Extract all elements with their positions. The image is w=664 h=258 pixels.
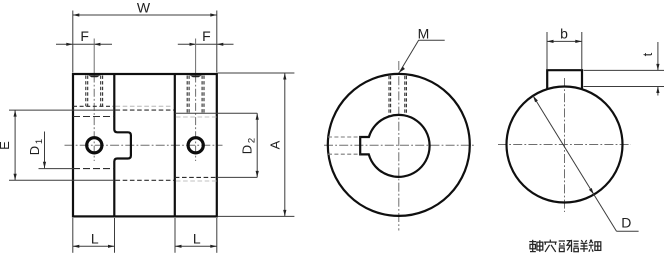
clamp screw hole hidden lines front view (389, 76, 406, 116)
slit between centre body and right hub (174, 74, 176, 216)
screw centre line left hub (vertical) (93, 39, 95, 75)
screw centre line right hub (vertical) (195, 39, 197, 75)
svg-text:D: D (27, 146, 42, 155)
svg-text:L: L (193, 231, 201, 247)
dimension A line (283, 73, 286, 216)
dimension t line with outside arrows (656, 42, 659, 96)
shaft hole circle (507, 87, 623, 203)
leader line M (399, 40, 445, 72)
E upper line through hub (9, 109, 114, 111)
E lower line through hub (9, 179, 114, 181)
kanji 穴 (544, 240, 557, 252)
right hub bore faint hidden line upper (176, 116, 217, 118)
svg-text:t: t (640, 52, 655, 56)
left hub counterbore hidden line upper (73, 105, 114, 107)
vertical centre line detail view (564, 78, 566, 212)
dimension A extension line top (218, 72, 295, 74)
dimension W line (73, 13, 217, 16)
right clamp screw head circle (188, 138, 203, 153)
centre body counterbore faint hidden line (116, 105, 175, 107)
dimension b extension lines (546, 32, 548, 69)
dimension F left line (56, 43, 112, 46)
svg-text:W: W (137, 0, 151, 16)
dimension E line (14, 110, 17, 180)
svg-text:1: 1 (34, 139, 45, 144)
dimension L right line (175, 245, 217, 248)
svg-text:D: D (621, 214, 631, 230)
svg-text:D: D (240, 145, 255, 154)
D2 lower line through right hub (175, 176, 217, 178)
svg-text:A: A (268, 140, 283, 149)
dimension L left line (73, 245, 115, 248)
D2 upper line through right hub (175, 112, 257, 114)
svg-text:b: b (560, 26, 568, 42)
kanji 軸 (529, 240, 543, 252)
outer diameter circle (328, 74, 470, 216)
left clamp screw head circle (87, 138, 102, 153)
dimension D diagonal line (533, 96, 639, 231)
kanji 細 (589, 240, 601, 252)
dimension L extension lines (73, 218, 217, 253)
bore circle with clamp slit notch (360, 115, 429, 177)
right hub screw hole chamfer (190, 75, 202, 77)
centre body hidden line upper (116, 109, 175, 111)
left hub bore hidden line lower (D1) (73, 168, 114, 170)
vertical centre line front view (398, 61, 400, 231)
svg-text:F: F (80, 28, 89, 44)
right hub clamp screw hole hidden lines (187, 76, 204, 114)
left hub clamp screw hole hidden lines (86, 76, 103, 107)
horizontal centre line of left view (65, 144, 223, 146)
dimension W extension line right (216, 11, 218, 73)
keyway bump (547, 70, 582, 89)
svg-text:M: M (418, 26, 430, 42)
centre body hidden line lower (116, 179, 175, 181)
dimension D1 line (43, 132, 46, 169)
horizontal centre line front view (324, 144, 474, 146)
horizontal centre line detail view (498, 144, 631, 146)
caption 軸穴部詳細 (shaft hole detail) drawn as strokes (529, 240, 601, 252)
dimension b line (547, 40, 582, 43)
svg-text:F: F (202, 28, 211, 44)
kanji 詳 (573, 240, 588, 252)
svg-text:L: L (91, 231, 99, 247)
left hub bore hidden line upper (73, 116, 114, 118)
right hub bore faint hidden line lower (176, 180, 217, 182)
slit between left hub and centre body with jaw tab (114, 74, 131, 216)
slit hidden lines to outer diameter (328, 136, 360, 138)
dimension D2 label (rotated) (240, 138, 258, 154)
svg-text:E: E (0, 141, 12, 150)
dimension t extension line top (584, 69, 664, 71)
dimension W extension line left (72, 11, 74, 73)
left hub screw hole chamfer (88, 75, 100, 77)
D1 extension line outside part (39, 168, 74, 170)
dimension A extension line bottom (218, 215, 295, 217)
coupling body outline (73, 74, 217, 216)
dimension D2 line (256, 113, 259, 177)
svg-text:2: 2 (247, 138, 258, 143)
dimension t extension line bottom (584, 86, 664, 88)
dimension F right line (178, 43, 234, 46)
dimension D1 label (rotated) (27, 139, 45, 155)
kanji 部 (559, 240, 572, 252)
